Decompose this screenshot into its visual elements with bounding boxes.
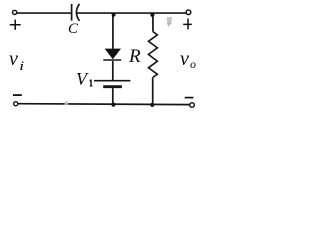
plus sign top-left [10, 20, 21, 30]
wire diode to battery [112, 61, 114, 80]
wire top-middle [77, 12, 186, 14]
scan artifact grey mark right [167, 17, 173, 28]
label V1 subscript 1 [88, 78, 94, 88]
label v_i subscript i [19, 59, 24, 72]
terminal top-right [186, 10, 191, 15]
label v_i [9, 49, 18, 69]
diode cathode bar [103, 59, 121, 61]
label v_o subscript o [190, 58, 196, 70]
label v_o [180, 49, 189, 69]
label C [68, 22, 78, 37]
capacitor C left plate [71, 4, 73, 21]
label V1 [76, 70, 87, 88]
scan artifact grey mark right darker base [167, 23, 171, 24]
terminal bottom-left [14, 102, 18, 106]
diode triangle [105, 49, 121, 60]
plus sign top-right [183, 19, 192, 30]
terminal bottom-right [190, 103, 195, 108]
wire diode branch top [112, 13, 114, 49]
scan artifact grey mark bottom [64, 100, 69, 105]
junction dot diode top [112, 13, 116, 17]
resistor R lead top [152, 13, 154, 32]
wire top-left [17, 12, 71, 14]
wire battery to bottom rail [112, 88, 114, 104]
battery V1 short plate [103, 85, 122, 88]
label R [129, 47, 141, 66]
resistor R zigzag [148, 32, 157, 78]
junction dot resistor bottom [150, 103, 154, 107]
terminal top-left [13, 10, 17, 14]
minus sign bottom-right [185, 97, 194, 99]
capacitor C right plate (curved) [76, 4, 79, 21]
junction dot diode bottom [111, 103, 115, 107]
battery V1 long plate [94, 80, 130, 82]
junction dot resistor top [150, 13, 154, 17]
bottom rail [18, 103, 190, 106]
minus sign bottom-left [13, 94, 22, 96]
resistor R lead bottom [152, 78, 154, 105]
